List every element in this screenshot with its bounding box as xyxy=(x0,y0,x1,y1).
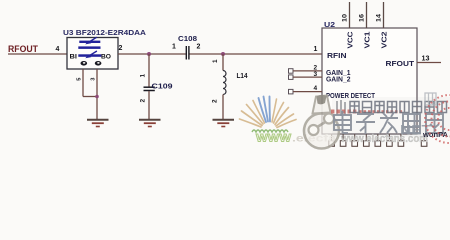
svg-text:2: 2 xyxy=(119,45,123,52)
U2 bottom pin 3 stub xyxy=(354,134,356,141)
watermark gray circle logo xyxy=(304,95,339,149)
svg-text:2: 2 xyxy=(212,99,219,103)
U2 bottom pin stubs and connector squares xyxy=(329,134,427,146)
watermark fan logo xyxy=(240,97,297,128)
svg-text:L14: L14 xyxy=(237,73,248,80)
U3 bottom pin marks (inside box) xyxy=(81,61,88,66)
capacitor C109 plates xyxy=(144,86,155,88)
U2 bottom pin 6 stub xyxy=(388,134,390,141)
U3 filter symbol arrow 2 xyxy=(88,51,97,57)
U3 filter symbol arrow 1 xyxy=(88,37,97,43)
wire POWER DETECT xyxy=(293,91,322,93)
wire C109 branch upper xyxy=(148,54,150,87)
U2 bottom pin 7 stub xyxy=(400,134,402,141)
svg-text:14: 14 xyxy=(376,14,383,22)
svg-text:VCC: VCC xyxy=(346,31,355,49)
wire RFOUT to U3 pin 4 xyxy=(8,53,67,55)
wire joining U3 bottom pins xyxy=(83,96,97,98)
ground below L14 xyxy=(213,119,235,121)
svg-text:16: 16 xyxy=(359,14,366,22)
svg-text:C108: C108 xyxy=(178,34,197,43)
watermark dark strokes right of logo xyxy=(337,100,345,116)
svg-text:10: 10 xyxy=(342,14,349,22)
svg-text:WWW: WWW xyxy=(256,133,292,145)
svg-text:RFOUT: RFOUT xyxy=(8,44,38,54)
wire C108 to U2 RFIN (right part) xyxy=(189,53,322,55)
svg-text:RFIN: RFIN xyxy=(327,53,347,60)
U3 filter symbol bar 1 xyxy=(79,41,100,43)
svg-text:RFOUT: RFOUT xyxy=(386,61,415,68)
IC U2 body xyxy=(322,28,417,134)
connector square GAIN_1 xyxy=(289,69,294,74)
svg-text:VC1: VC1 xyxy=(363,32,372,49)
svg-text:U2: U2 xyxy=(324,20,335,29)
watermark small red text row xyxy=(331,110,402,114)
junction node L14 branch xyxy=(221,52,225,56)
inductor L14 coil xyxy=(223,71,226,95)
U2 top pin stub VC1 xyxy=(366,2,368,28)
svg-text:4: 4 xyxy=(56,46,60,53)
svg-text:3: 3 xyxy=(314,71,318,78)
watermark red dotted stamp arcs xyxy=(425,95,450,143)
watermark big CJK-style outlined characters xyxy=(334,111,443,134)
svg-text:1: 1 xyxy=(140,74,147,78)
watermark grass row xyxy=(252,130,288,132)
capacitor C108 plates xyxy=(185,46,187,60)
U3 filter symbol bar 2 xyxy=(78,46,100,49)
svg-text:1: 1 xyxy=(314,46,318,53)
watermark dark small char row xyxy=(350,102,447,113)
U2 bottom pin 8 stub xyxy=(423,134,425,141)
filter U3 body xyxy=(67,38,118,70)
svg-text:2: 2 xyxy=(197,44,201,51)
svg-text:BO: BO xyxy=(101,53,111,60)
U3 bottom-right pin wire xyxy=(96,69,98,119)
U2 top pin stub VCC xyxy=(349,2,351,28)
svg-text:1: 1 xyxy=(212,59,219,63)
watermark small gray char above xyxy=(425,93,436,105)
U2 bottom pin 2 stub xyxy=(342,134,344,141)
U2 bottom pin 1 stub xyxy=(331,134,333,141)
svg-text:U3 BF2012-E2R4DAA: U3 BF2012-E2R4DAA xyxy=(63,28,147,37)
svg-text:GAIN_2: GAIN_2 xyxy=(326,77,351,84)
wire U3 BO to U2 RFIN (left part) xyxy=(118,53,186,55)
connector square POWER DETECT xyxy=(289,89,294,94)
svg-text:VC2: VC2 xyxy=(380,32,389,49)
svg-text:4: 4 xyxy=(314,85,318,92)
svg-text:BI: BI xyxy=(70,53,78,60)
wire L14 branch upper xyxy=(222,54,224,71)
wire GAIN_1 xyxy=(293,70,322,72)
svg-text:1: 1 xyxy=(172,44,176,51)
U2 bottom pin 4 stub xyxy=(365,134,367,141)
wire L14 branch lower xyxy=(222,95,224,120)
junction at U3 ground pin xyxy=(95,95,99,99)
U2 top pin stub VC2 xyxy=(383,2,385,28)
svg-text:2: 2 xyxy=(140,99,147,103)
svg-text:C109: C109 xyxy=(152,82,173,91)
ground below U3 xyxy=(87,119,109,121)
svg-text:13: 13 xyxy=(422,56,430,63)
watermark tint over busy area xyxy=(332,97,450,137)
U3 bottom-left pin wire xyxy=(82,69,84,97)
wire pin 13 RFOUT xyxy=(417,62,441,64)
wire C109 branch lower xyxy=(148,91,150,119)
U3 filter symbol bar 3 xyxy=(78,54,101,57)
junction node C109 branch xyxy=(147,52,151,56)
ground below C109 xyxy=(139,119,161,121)
connector square GAIN_2 xyxy=(289,75,294,80)
wire GAIN_2 xyxy=(293,76,322,78)
U2 bottom pin 5 stub xyxy=(377,134,379,141)
